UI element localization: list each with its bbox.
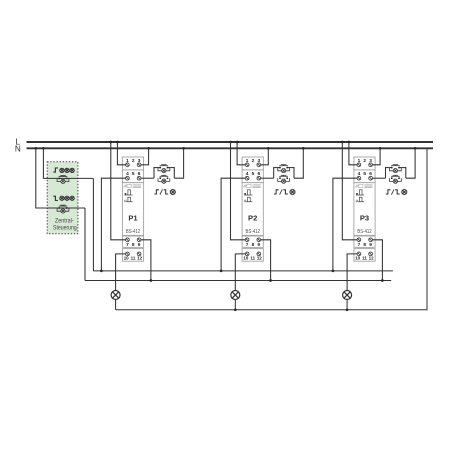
module P1 label strip — [124, 184, 141, 187]
wire N to push buttons of P2 — [294, 147, 305, 178]
svg-text:7: 7 — [126, 242, 129, 248]
svg-text:8: 8 — [252, 242, 255, 248]
wire N drop to central ON button — [42, 147, 93, 178]
wire N to terminal 3 of P3 — [371, 147, 382, 165]
svg-text:9: 9 — [369, 242, 372, 248]
relay module P2 outline — [242, 157, 263, 261]
svg-text:9: 9 — [138, 242, 141, 248]
svg-text:N: N — [15, 145, 21, 154]
wire L line — [27, 141, 434, 143]
label Zentral-Steuerung — [53, 218, 77, 231]
svg-text:12: 12 — [137, 255, 142, 260]
relay module P1 outline — [122, 157, 143, 261]
wire N line — [27, 147, 434, 149]
push button b of P3 — [390, 175, 402, 183]
wire L to terminal 1 of P1 — [116, 141, 127, 165]
module P1 terminal numbers 7 8 9 — [126, 242, 141, 248]
function label on/off lamp of P1 — [154, 189, 175, 194]
wire central ON bus (to terminals 4) — [93, 270, 393, 272]
local push button pair of P3 — [386, 167, 406, 178]
push button central OFF — [57, 205, 69, 213]
wire lamp return bus — [116, 148, 427, 309]
wire lamp E3 to return bus — [346, 300, 348, 310]
wire L to terminal 7 of P3 — [341, 141, 359, 240]
local push button pair of P1 — [154, 167, 174, 178]
push button a of P1 — [158, 165, 170, 173]
svg-text:P2: P2 — [248, 214, 257, 223]
module P2 terminal numbers 1 2 3 — [246, 158, 261, 164]
svg-text:8: 8 — [363, 242, 366, 248]
module P3 label strip — [355, 184, 372, 187]
svg-text:10: 10 — [243, 255, 248, 260]
module P1 screw terminals — [126, 163, 141, 256]
svg-text:8: 8 — [132, 242, 135, 248]
module P3 terminal numbers 4 5 6 — [358, 171, 373, 177]
wire N to terminal 3 of P1 — [139, 147, 150, 165]
module P3 terminal numbers 10 11 12 — [355, 255, 374, 260]
svg-text:2: 2 — [363, 158, 366, 164]
wire N to push buttons of P1 — [174, 147, 185, 178]
module P1 terminal numbers 10 11 12 — [124, 255, 143, 260]
module P1 terminal numbers 1 2 3 — [126, 158, 141, 164]
wire terminal 9 of P3 to central OFF bus — [371, 240, 384, 282]
svg-text:12: 12 — [369, 255, 374, 260]
module P3 screw terminals — [357, 163, 372, 256]
wire terminal 6 of P1 to local push buttons — [139, 177, 154, 179]
relay module P3 outline — [354, 157, 375, 261]
svg-text:BS-412: BS-412 — [357, 229, 371, 235]
svg-text:9: 9 — [257, 242, 260, 248]
svg-text:P3: P3 — [360, 214, 369, 223]
wire L to terminal 7 of P2 — [229, 141, 247, 240]
module P2 screw terminals — [245, 163, 260, 256]
local push button pair of P2 — [274, 167, 294, 178]
wire N to terminal 3 of P2 — [259, 147, 270, 165]
module P1 pictogram 1 — [125, 190, 133, 195]
svg-text:11: 11 — [362, 255, 367, 260]
svg-text:Zentral-: Zentral- — [55, 218, 74, 224]
module P2 terminal numbers 7 8 9 — [246, 242, 261, 248]
svg-text:10: 10 — [355, 255, 360, 260]
wire central OFF down to bus B — [84, 208, 86, 281]
wire terminal 6 of P2 to local push buttons — [259, 177, 274, 179]
wire terminal 9 of P2 to central OFF bus — [259, 240, 272, 282]
lamp icons central OFF — [60, 196, 74, 200]
svg-text:7: 7 — [246, 242, 249, 248]
wire central ON down to bus A — [92, 178, 94, 271]
icon central OFF (falling step) — [53, 196, 58, 200]
wire central ON bus riser to terminal 4 of P1 — [100, 178, 127, 272]
module P3 pictogram 2 — [356, 197, 364, 201]
module P1 pictogram 2 — [125, 197, 133, 201]
junction lamp P3 on return bus — [346, 308, 349, 311]
lamp E3 — [343, 291, 352, 300]
svg-text:BS-412: BS-412 — [246, 229, 260, 235]
wire L to terminal 1 of P3 — [348, 141, 359, 165]
module P2 terminal numbers 4 5 6 — [246, 171, 261, 177]
svg-text:2: 2 — [252, 158, 255, 164]
svg-text:12: 12 — [257, 255, 262, 260]
svg-text:11: 11 — [131, 255, 136, 260]
svg-text:5: 5 — [132, 171, 135, 177]
module P1 terminal numbers 4 5 6 — [126, 171, 141, 177]
function label on/off lamp of P3 — [386, 189, 407, 194]
push button b of P1 — [158, 175, 170, 183]
lamp icons central ON — [60, 168, 74, 172]
svg-text:Steuerung: Steuerung — [53, 226, 77, 232]
push button b of P2 — [278, 175, 290, 183]
svg-text:2: 2 — [132, 158, 135, 164]
wire terminal 9 of P1 to central OFF bus — [139, 240, 152, 282]
junction lamp P2 on return bus — [234, 308, 237, 311]
svg-text:5: 5 — [252, 171, 255, 177]
icon central ON (rising step) — [53, 168, 58, 172]
wire terminal 10 of P3 to lamp — [347, 254, 359, 291]
wire L to terminal 1 of P2 — [236, 141, 247, 165]
Zentral-Steuerung control box — [47, 162, 78, 234]
svg-text:P1: P1 — [128, 214, 138, 223]
wire lamp E2 to return bus — [234, 300, 236, 310]
wire central OFF bus (to terminals 9) — [85, 280, 391, 282]
module P2 terminal numbers 10 11 12 — [243, 255, 262, 260]
push button central ON — [57, 176, 69, 184]
module P2 pictogram 2 — [244, 197, 252, 201]
wire N drop to central OFF button — [34, 147, 85, 208]
push button a of P3 — [390, 165, 402, 173]
svg-text:5: 5 — [363, 171, 366, 177]
module P2 pictogram 1 — [244, 190, 252, 195]
module P3 pictogram 1 — [356, 190, 364, 195]
lamp E1 — [111, 291, 120, 300]
lamp E2 — [231, 291, 240, 300]
wire terminal 10 of P2 to lamp — [235, 254, 247, 291]
wire N to push buttons of P3 — [406, 147, 417, 178]
wire terminal 10 of P1 to lamp — [116, 254, 128, 291]
function label on/off lamp of P2 — [274, 189, 295, 194]
wire terminal 6 of P3 to local push buttons — [371, 177, 386, 179]
push button a of P2 — [278, 165, 290, 173]
wire central ON bus riser to terminal 4 of P2 — [220, 178, 247, 272]
svg-text:10: 10 — [124, 255, 129, 260]
svg-text:BS-412: BS-412 — [126, 229, 140, 235]
svg-text:7: 7 — [358, 242, 361, 248]
wire lamp E1 to return bus — [115, 300, 117, 310]
wire L to terminal 7 of P1 — [109, 141, 127, 240]
wire central ON bus riser to terminal 4 of P3 — [332, 178, 359, 272]
module P3 terminal numbers 1 2 3 — [358, 158, 373, 164]
svg-text:11: 11 — [250, 255, 255, 260]
module P2 label strip — [243, 184, 260, 187]
module P3 terminal numbers 7 8 9 — [358, 242, 373, 248]
